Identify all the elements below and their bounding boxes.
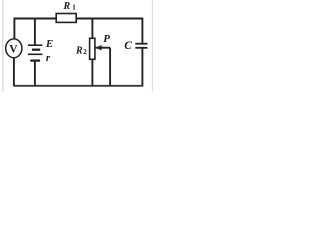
wire: R2 branch top <box>91 19 93 39</box>
resistor R2 box <box>90 38 95 59</box>
wire: right below capacitor <box>141 48 143 86</box>
capacitor C plates <box>135 44 147 48</box>
svg-text:C: C <box>124 40 132 52</box>
wire: top left segment <box>14 19 56 40</box>
wire: battery branch top <box>34 19 36 45</box>
background <box>0 0 156 92</box>
voltmeter V circle <box>6 39 22 58</box>
svg-text:2: 2 <box>83 48 87 56</box>
resistor R1 box <box>56 14 76 23</box>
wiper arrowhead <box>96 45 102 50</box>
frame right border <box>151 0 153 92</box>
wire: left below voltmeter <box>13 57 15 85</box>
svg-text:R: R <box>75 45 83 56</box>
wire: battery branch bottom <box>34 61 36 86</box>
wire: R2 branch bottom <box>91 59 93 86</box>
svg-text:R: R <box>63 1 71 12</box>
svg-text:r: r <box>46 52 51 64</box>
svg-text:V: V <box>9 44 18 56</box>
svg-text:E: E <box>45 38 53 50</box>
wire: bottom <box>14 85 144 87</box>
frame left border <box>2 0 4 92</box>
battery E plates <box>28 45 43 60</box>
svg-text:1: 1 <box>72 4 76 12</box>
svg-text:P: P <box>103 33 110 45</box>
wire: wiper P horizontal <box>96 47 111 49</box>
wire: right above capacitor <box>141 18 143 44</box>
wire: top right segment <box>76 18 142 20</box>
wire: wiper P vertical <box>109 48 111 86</box>
